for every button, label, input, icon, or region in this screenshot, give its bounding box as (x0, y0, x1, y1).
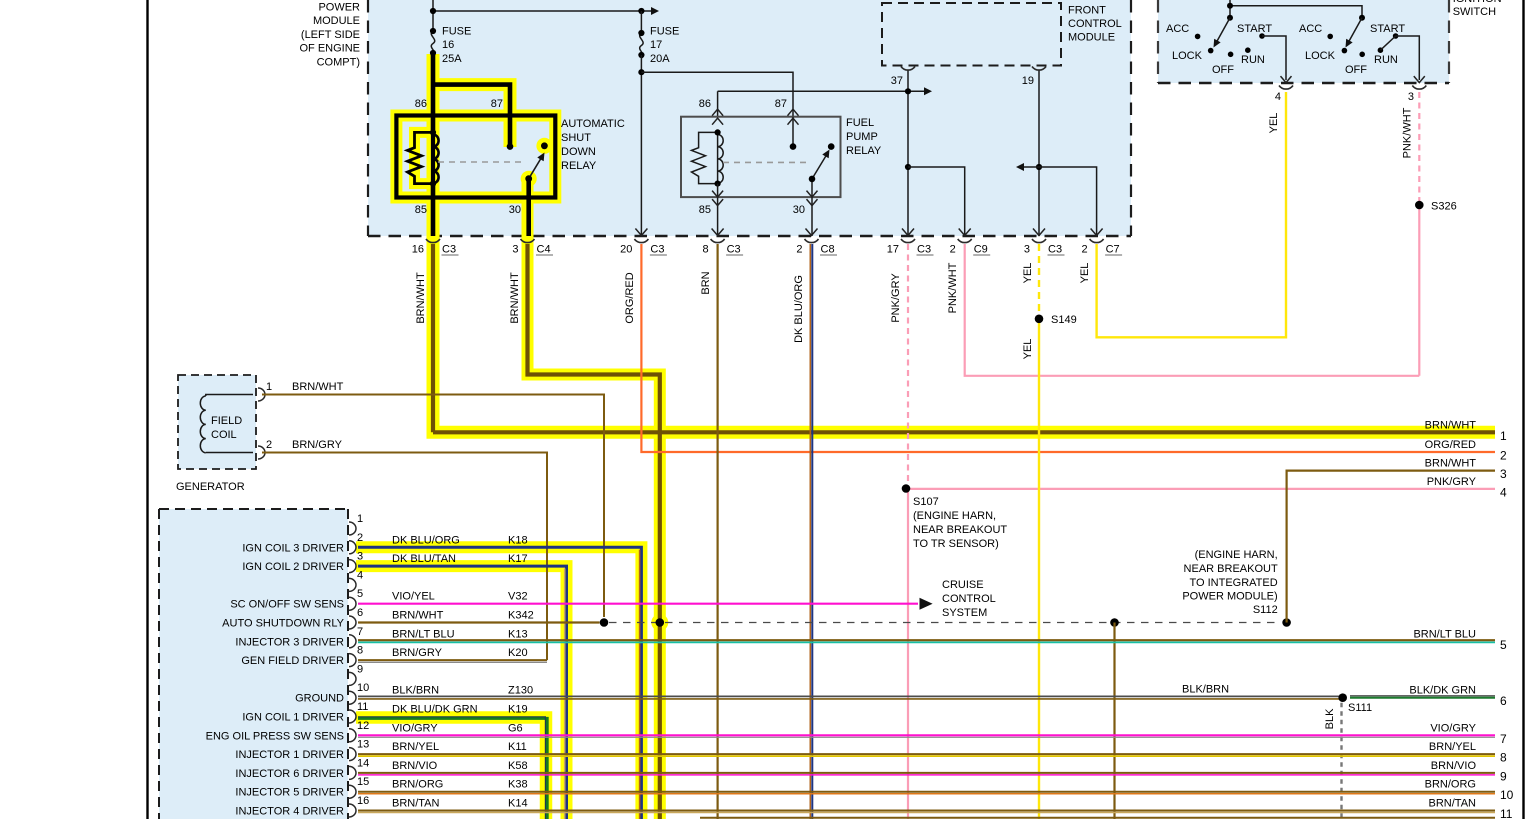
svg-text:86: 86 (699, 98, 711, 110)
chevrons fuel pump relay pin87 (788, 109, 799, 116)
svg-text:BRN/WHT: BRN/WHT (292, 381, 344, 393)
asd relay box (396, 116, 555, 198)
svg-text:S111: S111 (1348, 702, 1372, 714)
svg-text:GENERATOR: GENERATOR (176, 481, 245, 493)
svg-text:BRN/WHT: BRN/WHT (415, 272, 427, 324)
svg-text:START: START (1370, 23, 1405, 35)
wire partial bottom row (700, 817, 1495, 819)
connector ignition pin 3 (1412, 86, 1426, 90)
connector PCM pin 11 (349, 710, 356, 723)
connector generator pin1 (258, 388, 265, 401)
svg-text:SYSTEM: SYSTEM (942, 607, 987, 619)
connector 16 C3 (426, 239, 440, 243)
wire BRN/WHT S112 to row3 (1287, 471, 1495, 623)
arrow cruise control (920, 598, 933, 610)
svg-text:2: 2 (266, 439, 272, 451)
connector FCM pin 19 (1032, 67, 1046, 71)
svg-text:5: 5 (1500, 638, 1507, 652)
wire row1 BRN/WHT to right edge (433, 430, 1495, 434)
contact RUN 1 (1245, 47, 1251, 53)
wire K19 DK BLU/DK GRN (358, 718, 547, 819)
svg-text:IGN COIL 2 DRIVER: IGN COIL 2 DRIVER (242, 561, 344, 573)
svg-text:BLK/BRN: BLK/BRN (1182, 684, 1229, 696)
splice S112 (1282, 618, 1291, 627)
svg-text:DK BLU/ORG: DK BLU/ORG (392, 534, 460, 546)
splice S111 (1338, 693, 1347, 702)
svg-text:K14: K14 (508, 798, 528, 810)
connector 17 C3 (902, 229, 914, 236)
switch arm 2 (1348, 18, 1362, 43)
svg-text:BRN/YEL: BRN/YEL (392, 741, 439, 753)
wire asd 85 to 16C3 (thick) (431, 184, 436, 236)
wire K38 BRN/ORG (358, 791, 1495, 793)
svg-text:POWER: POWER (318, 2, 360, 14)
node ignition pivot 1 (1227, 15, 1233, 21)
svg-text:OFF: OFF (1345, 64, 1367, 76)
svg-text:OF ENGINE: OF ENGINE (299, 43, 360, 55)
node ignition pivot 1 top (1227, 3, 1233, 9)
fuel pump relay 87 stub (792, 117, 794, 147)
svg-text:POWER MODULE): POWER MODULE) (1182, 591, 1277, 603)
svg-text:C3: C3 (650, 244, 664, 256)
wire YEL below S149 (1038, 319, 1040, 819)
svg-text:PUMP: PUMP (846, 131, 878, 143)
svg-text:CONTROL: CONTROL (942, 593, 996, 605)
fuel pump relay switch (811, 179, 813, 197)
svg-text:NEAR BREAKOUT: NEAR BREAKOUT (1184, 563, 1278, 575)
svg-text:MODULE: MODULE (1068, 32, 1115, 44)
wire fuse16 to asd 86 (thick) (431, 53, 436, 132)
ignition switch box (dashed) (1158, 0, 1449, 83)
svg-text:3: 3 (1024, 244, 1030, 256)
node fcm19 branch junction (1036, 164, 1042, 170)
wire FCM pin37 vertical (907, 70, 909, 236)
svg-text:4: 4 (1275, 91, 1281, 103)
wire fuel pump relay 85 to 8C3 (717, 184, 719, 236)
splice S107 (902, 484, 911, 493)
svg-text:K20: K20 (508, 647, 528, 659)
svg-text:DK BLU/DK GRN: DK BLU/DK GRN (392, 704, 478, 716)
svg-text:BRN/TAN: BRN/TAN (1429, 798, 1477, 810)
svg-text:4: 4 (1500, 485, 1507, 499)
wire fuse17 to 20C3 (640, 55, 642, 236)
wire K14 BRN/TAN (358, 810, 1495, 812)
svg-text:85: 85 (415, 204, 427, 216)
svg-text:8: 8 (702, 244, 708, 256)
svg-text:GROUND: GROUND (295, 693, 344, 705)
svg-text:FUSE: FUSE (442, 26, 471, 38)
svg-text:8: 8 (1500, 751, 1507, 765)
svg-text:IGNITION: IGNITION (1453, 0, 1502, 5)
connector PCM pin 8 (349, 654, 356, 667)
svg-text:RUN: RUN (1241, 54, 1265, 66)
svg-text:FUEL: FUEL (846, 117, 874, 129)
svg-text:FUSE: FUSE (650, 26, 679, 38)
svg-text:(ENGINE HARN,: (ENGINE HARN, (913, 510, 996, 522)
svg-text:YEL: YEL (1268, 113, 1280, 134)
svg-text:BRN/ORG: BRN/ORG (392, 779, 443, 791)
contact OFF 1 (1228, 52, 1234, 58)
connector 2 C7 (1091, 229, 1103, 236)
wire asd 86-87 branch (thick) (433, 85, 510, 147)
wire B+ feed vertical to fuse 16 (432, 0, 434, 32)
svg-text:17: 17 (887, 244, 899, 256)
svg-text:IGN COIL 3 DRIVER: IGN COIL 3 DRIVER (242, 542, 344, 554)
connector PCM pin 4 (349, 578, 356, 591)
svg-text:SHUT: SHUT (561, 132, 591, 144)
svg-text:BRN/ORG: BRN/ORG (1425, 779, 1476, 791)
svg-text:MODULE: MODULE (313, 15, 360, 27)
wire PNK/WHT below S326 (1418, 204, 1420, 376)
svg-text:BRN/WHT: BRN/WHT (1425, 419, 1477, 431)
svg-text:TO TR SENSOR): TO TR SENSOR) (913, 538, 999, 550)
wire BRN/GRY generator pin2 (262, 453, 547, 661)
svg-text:BLK/DK GRN: BLK/DK GRN (1409, 685, 1476, 697)
connector PCM pin 5 (349, 597, 356, 610)
integrated power module box (dashed, left side of engine compt) (368, 0, 1131, 236)
svg-text:7: 7 (1500, 732, 1507, 746)
svg-text:C9: C9 (974, 244, 988, 256)
connector PCM pin 15 (349, 785, 356, 798)
wire fuel pump relay 86 lead (717, 91, 719, 132)
svg-text:VIO/GRY: VIO/GRY (1430, 722, 1476, 734)
wire V32 VIO/YEL to cruise (358, 603, 918, 605)
svg-text:C8: C8 (821, 244, 835, 256)
generator field coil (206, 395, 253, 397)
highlight asd relay border (396, 116, 555, 198)
highlight K18 wire (356, 547, 641, 819)
connector PCM pin 13 (349, 748, 356, 761)
svg-text:BRN/VIO: BRN/VIO (1431, 760, 1477, 772)
contact RUN 2 (1378, 47, 1384, 53)
wire ignition feed (1229, 0, 1231, 18)
highlight asd coil (415, 132, 434, 183)
connector PCM pin 6 (349, 616, 356, 629)
node fcm37 bus junction (905, 88, 911, 94)
wire branch to 2C9 (908, 167, 965, 236)
svg-text:DOWN: DOWN (561, 146, 596, 158)
svg-text:5: 5 (357, 588, 363, 600)
svg-text:ACC: ACC (1166, 23, 1189, 35)
PCM connector box (dashed) (159, 509, 348, 819)
svg-text:YEL: YEL (1079, 263, 1091, 284)
svg-text:BRN/VIO: BRN/VIO (392, 760, 438, 772)
svg-text:3: 3 (1408, 91, 1414, 103)
asd relay coil (408, 132, 434, 183)
wire K18 DK BLU/ORG (358, 547, 641, 819)
svg-text:INJECTOR 5 DRIVER: INJECTOR 5 DRIVER (235, 787, 344, 799)
highlight fuse16-to-row1 wire (433, 54, 1495, 432)
splice S149 (1035, 315, 1044, 324)
wire BRN/WHT generator pin1 (262, 395, 604, 618)
connector PCM pin 12 (349, 729, 356, 742)
right page border (1522, 0, 1524, 819)
svg-text:2: 2 (950, 244, 956, 256)
svg-text:2: 2 (357, 532, 363, 544)
svg-text:S107: S107 (913, 496, 939, 508)
connector PCM pin 2 (349, 541, 356, 554)
svg-text:BRN/WHT: BRN/WHT (392, 610, 444, 622)
svg-text:CONTROL: CONTROL (1068, 18, 1122, 30)
svg-text:K38: K38 (508, 779, 528, 791)
svg-text:K17: K17 (508, 553, 528, 565)
svg-text:FRONT: FRONT (1068, 5, 1106, 17)
svg-text:C7: C7 (1106, 244, 1120, 256)
asd relay switch (529, 155, 543, 179)
fuse F17 symbol (640, 33, 643, 58)
wire PNK/WHT 2C9 (965, 244, 1420, 376)
svg-text:INJECTOR 1 DRIVER: INJECTOR 1 DRIVER (235, 749, 344, 761)
node ignition pivot 2 (1359, 15, 1365, 21)
highlight asd 86-87 branch (433, 85, 510, 147)
wire ORG/RED 20C3 (641, 244, 1495, 452)
front control module box (dashed) (882, 3, 1061, 66)
wire K20 BRN/GRY (358, 659, 547, 661)
svg-text:11: 11 (357, 701, 368, 713)
svg-text:3: 3 (357, 551, 363, 563)
highlight 3C4 brn/wht wire (528, 179, 660, 819)
connector ignition pin 4 (1279, 86, 1293, 90)
svg-text:20A: 20A (650, 53, 670, 65)
node K342 junction (600, 618, 609, 627)
svg-text:BLK: BLK (1324, 708, 1336, 729)
svg-text:16: 16 (357, 795, 369, 807)
svg-text:RELAY: RELAY (561, 160, 597, 172)
connector PCM pin 9 (349, 672, 356, 685)
wire Z130 BLK/BRN (358, 695, 1343, 697)
wire K58 BRN/VIO (358, 772, 1495, 774)
svg-text:K58: K58 (508, 760, 528, 772)
svg-text:PNK/WHT: PNK/WHT (947, 262, 959, 313)
svg-text:PNK/GRY: PNK/GRY (1427, 476, 1477, 488)
splice S326 (1415, 201, 1424, 210)
svg-text:S112: S112 (1253, 604, 1278, 616)
svg-text:17: 17 (650, 39, 662, 51)
svg-text:1: 1 (1500, 429, 1507, 443)
svg-text:12: 12 (357, 720, 369, 732)
wire DK BLU/ORG 2C8 (809, 244, 811, 819)
highlight ring splice on row6 (651, 614, 668, 631)
highlight K17 wire (356, 566, 567, 819)
svg-text:BRN/LT BLU: BRN/LT BLU (1413, 628, 1476, 640)
generator box (dashed) (178, 375, 256, 469)
wire BRN/WHT 16C3 (thick core) (431, 244, 435, 432)
fuel pump relay dashed link (723, 161, 806, 163)
svg-text:K18: K18 (508, 534, 528, 546)
svg-text:IGN COIL 1 DRIVER: IGN COIL 1 DRIVER (242, 712, 344, 724)
wire BRN 8C3 (716, 244, 718, 819)
svg-text:PNK/GRY: PNK/GRY (890, 273, 902, 323)
svg-text:ENG OIL PRESS SW SENS: ENG OIL PRESS SW SENS (206, 730, 344, 742)
svg-text:START: START (1237, 23, 1272, 35)
svg-text:1: 1 (357, 513, 363, 525)
svg-text:19: 19 (1022, 75, 1034, 87)
node fuse16 top junction (430, 8, 436, 14)
svg-text:AUTOMATIC: AUTOMATIC (561, 118, 625, 130)
svg-text:9: 9 (357, 663, 363, 675)
wire ignition pivot bus (1230, 6, 1362, 18)
svg-text:ORG/RED: ORG/RED (1425, 439, 1476, 451)
fuel pump relay coil (692, 132, 718, 183)
svg-text:BRN/YEL: BRN/YEL (1429, 741, 1476, 753)
asd relay 87 stub dot (507, 143, 514, 150)
svg-text:14: 14 (357, 757, 369, 769)
svg-text:INJECTOR 6 DRIVER: INJECTOR 6 DRIVER (235, 768, 344, 780)
svg-text:87: 87 (775, 98, 787, 110)
left page border (146, 0, 148, 819)
wire K17 DK BLU/TAN (358, 566, 567, 819)
wire G6 VIO/GRY (358, 734, 1495, 736)
connector PCM pin 16 (349, 804, 356, 817)
svg-text:11: 11 (1500, 807, 1513, 819)
svg-text:INJECTOR 4 DRIVER: INJECTOR 4 DRIVER (235, 806, 344, 818)
highlight K19 wire (356, 718, 546, 819)
wire asd 30 to 3C4 (thick) (526, 179, 531, 236)
switch arm 1 (1216, 18, 1230, 43)
wire BRN/WHT 3C4 (thick core) (528, 244, 660, 819)
fuel pump relay box (681, 117, 841, 197)
svg-text:(ENGINE HARN,: (ENGINE HARN, (1195, 549, 1278, 561)
svg-text:NEAR BREAKOUT: NEAR BREAKOUT (913, 524, 1007, 536)
svg-text:87: 87 (491, 98, 503, 110)
svg-text:10: 10 (357, 682, 369, 694)
svg-text:OFF: OFF (1212, 64, 1234, 76)
svg-text:85: 85 (699, 204, 711, 216)
svg-text:AUTO SHUTDOWN RLY: AUTO SHUTDOWN RLY (222, 618, 344, 630)
contact ACC 2 (1327, 34, 1333, 40)
wire K13 BRN/LT BLU (358, 639, 1495, 641)
node fuse17 bus junction (638, 8, 644, 14)
svg-text:6: 6 (1500, 694, 1507, 708)
svg-text:10: 10 (1500, 788, 1514, 802)
wire FCM pin19 vertical (1038, 70, 1040, 236)
svg-text:PNK/WHT: PNK/WHT (1402, 107, 1414, 158)
svg-text:LOCK: LOCK (1305, 50, 1336, 62)
highlight asd switch dots (521, 171, 537, 187)
svg-text:BLK/BRN: BLK/BRN (392, 685, 439, 697)
wire fuse17 upper lead (640, 11, 642, 33)
svg-text:SC ON/OFF SW SENS: SC ON/OFF SW SENS (230, 599, 344, 611)
wire K11 BRN/YEL (358, 753, 1495, 755)
connector PCM pin 7 (349, 635, 356, 648)
connector generator pin2 (258, 446, 265, 459)
svg-text:25A: 25A (442, 53, 462, 65)
svg-text:YEL: YEL (1022, 339, 1034, 360)
svg-text:Z130: Z130 (508, 685, 533, 697)
wire start1 to pin 4 (1262, 36, 1286, 80)
connector 3 C4 (521, 239, 535, 243)
wire fcm37 bus to fuel pump relay 86 (718, 90, 924, 92)
svg-text:TO INTEGRATED: TO INTEGRATED (1189, 577, 1277, 589)
svg-text:BRN/GRY: BRN/GRY (292, 439, 343, 451)
wire fuse17 branch to fuel pump relay 87 (641, 72, 793, 146)
svg-text:BRN/LT BLU: BRN/LT BLU (392, 628, 455, 640)
connector PCM pin 3 (349, 560, 356, 573)
svg-text:YEL: YEL (1022, 263, 1034, 284)
svg-text:COMPT): COMPT) (317, 56, 360, 68)
svg-text:C3: C3 (1048, 244, 1062, 256)
svg-text:K11: K11 (508, 741, 527, 753)
svg-text:86: 86 (415, 98, 427, 110)
svg-text:K342: K342 (508, 610, 534, 622)
svg-text:37: 37 (891, 75, 903, 87)
svg-text:7: 7 (357, 626, 363, 638)
svg-text:BRN: BRN (700, 271, 712, 294)
svg-text:K19: K19 (508, 704, 528, 716)
connector PCM pin 1 (349, 522, 356, 535)
svg-text:S326: S326 (1431, 201, 1457, 213)
contact LOCK 1 (1208, 48, 1214, 54)
svg-text:BRN/TAN: BRN/TAN (392, 798, 440, 810)
svg-text:SWITCH: SWITCH (1453, 6, 1496, 18)
wire K342 BRN/WHT solid (358, 621, 600, 623)
svg-text:4: 4 (357, 569, 363, 581)
svg-text:(LEFT SIDE: (LEFT SIDE (301, 29, 360, 41)
svg-text:30: 30 (509, 204, 521, 216)
connector 2 C8 (806, 229, 818, 236)
svg-text:LOCK: LOCK (1172, 50, 1203, 62)
chevrons fuel pump relay pin30 (807, 191, 818, 198)
chevrons fuel pump relay pin86 (712, 109, 723, 116)
svg-text:VIO/GRY: VIO/GRY (392, 722, 438, 734)
svg-text:16: 16 (442, 39, 454, 51)
svg-text:ORG/RED: ORG/RED (624, 272, 636, 323)
svg-text:DK BLU/TAN: DK BLU/TAN (392, 553, 456, 565)
svg-text:15: 15 (357, 776, 369, 788)
connector 20 C3 (635, 229, 647, 236)
svg-text:ACC: ACC (1299, 23, 1322, 35)
svg-text:8: 8 (357, 645, 363, 657)
svg-text:13: 13 (357, 739, 369, 751)
splice ring dot on yellow wire (656, 618, 665, 627)
svg-text:9: 9 (1500, 769, 1507, 783)
wire BLK/DK GRN S111 to right edge (1350, 697, 1495, 699)
wire YEL 2C7 loop (1097, 92, 1286, 337)
chevrons fuel pump relay pin85 (712, 191, 723, 198)
wire PNK solid below S107 (907, 489, 909, 819)
connector FCM pin 37 (901, 67, 915, 71)
svg-text:GEN FIELD DRIVER: GEN FIELD DRIVER (241, 655, 344, 667)
wire BRN down from row6 junction (1113, 623, 1115, 819)
svg-text:20: 20 (620, 244, 632, 256)
svg-text:K13: K13 (508, 628, 528, 640)
fuse F16 symbol (431, 31, 434, 56)
svg-text:C3: C3 (442, 244, 456, 256)
connector PCM pin 14 (349, 766, 356, 779)
svg-text:BRN/WHT: BRN/WHT (1425, 458, 1477, 470)
svg-text:V32: V32 (508, 591, 528, 603)
svg-text:3: 3 (512, 244, 518, 256)
svg-text:RELAY: RELAY (846, 145, 882, 157)
svg-text:BRN/GRY: BRN/GRY (392, 647, 443, 659)
svg-text:C3: C3 (917, 244, 931, 256)
svg-text:16: 16 (412, 244, 424, 256)
wire K342 dashed to S112 (609, 622, 1281, 624)
wire PNK/WHT ignition pin3 dashed (1418, 92, 1420, 201)
contact LOCK 2 (1342, 48, 1348, 54)
connector 2 C9 (959, 229, 971, 236)
wire B+ horizontal bus (433, 10, 651, 12)
svg-text:BRN/WHT: BRN/WHT (509, 272, 521, 324)
contact OFF 2 (1359, 52, 1365, 58)
svg-text:6: 6 (357, 607, 363, 619)
connector PCM pin 10 (349, 691, 356, 704)
svg-text:G6: G6 (508, 722, 523, 734)
wire branch to 2C7 (1039, 167, 1097, 236)
svg-text:C3: C3 (727, 244, 741, 256)
contact ACC 1 (1195, 34, 1201, 40)
connector 3 C3 (1033, 229, 1045, 236)
